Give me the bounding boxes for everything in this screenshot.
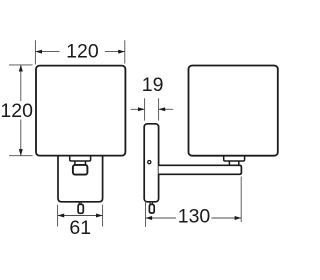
svg-text:19: 19	[142, 74, 164, 96]
svg-text:120: 120	[66, 40, 99, 62]
svg-text:120: 120	[0, 100, 33, 122]
svg-text:130: 130	[178, 205, 211, 227]
svg-text:61: 61	[69, 217, 91, 239]
